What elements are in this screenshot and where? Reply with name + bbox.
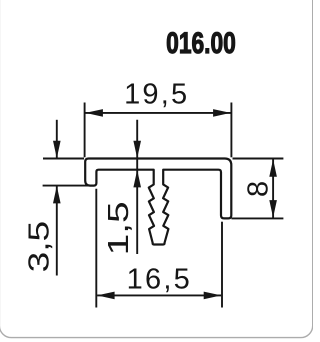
extension line bottom bbox=[232, 217, 284, 219]
arrowhead left bbox=[85, 109, 103, 117]
extension line left bbox=[84, 103, 86, 158]
extension line right bbox=[221, 222, 223, 308]
dimension line bbox=[97, 294, 221, 296]
svg-text:016.00: 016.00 bbox=[166, 26, 236, 60]
arrowhead right bbox=[213, 109, 231, 117]
arrowhead right bbox=[204, 292, 222, 300]
svg-text:1,5: 1,5 bbox=[103, 201, 135, 255]
upper arrow line bbox=[56, 120, 58, 159]
svg-text:3,5: 3,5 bbox=[23, 221, 55, 273]
arrowhead down bbox=[53, 141, 61, 159]
extension line bottom bbox=[43, 185, 89, 187]
svg-text:8: 8 bbox=[242, 181, 274, 197]
dimension line bbox=[272, 160, 274, 218]
dimension line bbox=[85, 112, 230, 114]
arrowhead up bbox=[269, 159, 277, 177]
arrowhead left bbox=[97, 292, 115, 300]
lower arrow line bbox=[56, 186, 58, 276]
dimension 8 (right wall height) bbox=[232, 159, 284, 219]
svg-text:19,5: 19,5 bbox=[124, 79, 189, 111]
arrowhead down to cap top bbox=[133, 141, 141, 159]
extension line right bbox=[230, 103, 232, 158]
extension line top bbox=[43, 158, 84, 160]
title 016.00 bbox=[166, 26, 236, 60]
svg-text:16,5: 16,5 bbox=[127, 263, 192, 295]
dimension 19,5 (overall width, top) bbox=[85, 103, 232, 158]
dimension 1,5 (cap thickness) bbox=[133, 120, 141, 254]
dimension 16,5 (channel width, bottom) bbox=[96, 189, 222, 308]
arrowhead up to cap underside bbox=[133, 170, 141, 188]
arrowhead up bbox=[53, 186, 61, 204]
extension line top bbox=[233, 158, 284, 160]
dimension line through cap bbox=[136, 120, 138, 254]
arrowhead down bbox=[269, 200, 277, 218]
extension line left bbox=[95, 189, 97, 308]
profile outline (T-profile with barbed leg) bbox=[85, 159, 231, 245]
dimension 3,5 (lip height, left) bbox=[43, 120, 89, 276]
